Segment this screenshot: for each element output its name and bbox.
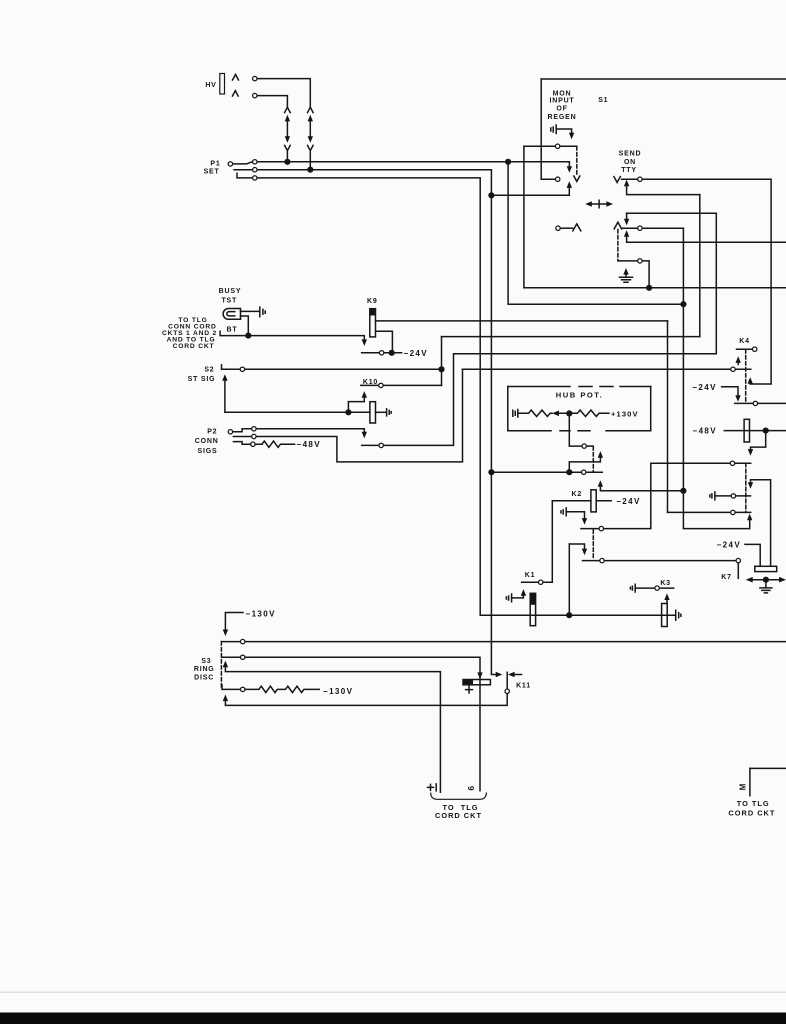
svg-text:−130V: −130V	[323, 687, 353, 696]
svg-text:TST: TST	[221, 297, 237, 304]
svg-text:CONN: CONN	[195, 438, 219, 445]
svg-text:−48V: −48V	[693, 427, 718, 436]
svg-text:K1: K1	[525, 572, 536, 579]
svg-text:K10: K10	[363, 379, 378, 386]
svg-text:SEND: SEND	[619, 151, 642, 158]
svg-text:K9: K9	[367, 298, 378, 305]
svg-text:HUB POT.: HUB POT.	[556, 391, 603, 400]
svg-text:CORD CKT: CORD CKT	[173, 343, 215, 350]
svg-text:RING: RING	[194, 666, 215, 673]
svg-text:−24V: −24V	[404, 349, 429, 358]
svg-text:−24V: −24V	[717, 541, 742, 550]
svg-text:S1: S1	[598, 97, 608, 104]
svg-text:K3: K3	[660, 580, 671, 587]
svg-text:−48V: −48V	[297, 440, 322, 449]
svg-text:SET: SET	[204, 168, 220, 175]
svg-text:INPUT: INPUT	[550, 98, 575, 105]
svg-text:CORD CKT: CORD CKT	[435, 811, 482, 820]
svg-text:K4: K4	[739, 338, 750, 345]
svg-text:MON: MON	[553, 90, 572, 97]
svg-text:P2: P2	[207, 429, 217, 436]
svg-text:K7: K7	[721, 574, 732, 581]
svg-text:S3: S3	[201, 658, 211, 665]
svg-text:TO TLG: TO TLG	[737, 799, 770, 808]
svg-text:BUSY: BUSY	[219, 288, 242, 295]
svg-text:−24V: −24V	[616, 497, 641, 506]
svg-text:−130V: −130V	[246, 610, 276, 619]
svg-text:K2: K2	[572, 491, 583, 498]
svg-text:6: 6	[466, 786, 476, 791]
svg-text:TTY: TTY	[621, 167, 637, 174]
svg-text:−24V: −24V	[692, 383, 717, 392]
svg-text:S2: S2	[204, 366, 214, 373]
svg-text:K11: K11	[516, 683, 531, 690]
svg-text:REGEN: REGEN	[548, 114, 577, 121]
svg-text:M: M	[739, 784, 748, 791]
svg-text:OF: OF	[556, 106, 567, 113]
svg-text:DISC: DISC	[194, 674, 214, 681]
svg-text:HV: HV	[205, 82, 216, 89]
svg-text:ST SIG: ST SIG	[188, 376, 216, 383]
svg-text:BT: BT	[227, 326, 238, 333]
svg-text:SIGS: SIGS	[198, 448, 218, 455]
svg-text:P1: P1	[210, 160, 220, 167]
svg-text:+130V: +130V	[611, 409, 639, 418]
svg-text:ON: ON	[624, 159, 636, 166]
svg-text:CORD CKT: CORD CKT	[728, 809, 775, 818]
